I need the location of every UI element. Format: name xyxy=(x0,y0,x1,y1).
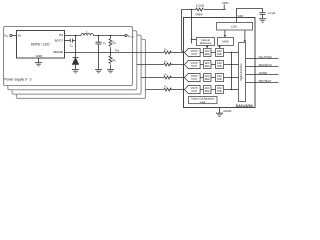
svg-text:IOUT: IOUT xyxy=(192,66,198,68)
svg-text:SENSE: SENSE xyxy=(53,50,63,54)
svg-text:REG: REG xyxy=(205,79,210,81)
svg-text:VREF: VREF xyxy=(195,13,203,17)
svg-text:VDD: VDD xyxy=(222,1,229,5)
svg-text:DAC: DAC xyxy=(217,62,222,65)
svg-text:BUF: BUF xyxy=(217,79,222,81)
svg-text:10 kΩ: 10 kΩ xyxy=(196,3,205,7)
svg-text:DAC: DAC xyxy=(205,62,210,65)
svg-text:IN: IN xyxy=(18,34,21,38)
svg-text:Digital Interface: Digital Interface xyxy=(240,63,243,81)
svg-text:GND: GND xyxy=(36,54,44,58)
svg-text:BUF: BUF xyxy=(217,91,222,93)
svg-text:DAC: DAC xyxy=(205,75,210,78)
svg-text:DAC: DAC xyxy=(205,87,210,90)
svg-text:REG: REG xyxy=(205,66,210,68)
svg-text:DAC: DAC xyxy=(217,75,222,78)
svg-text:IOUT: IOUT xyxy=(192,54,198,56)
svg-text:BOOT: BOOT xyxy=(55,39,64,43)
svg-text:NVM: NVM xyxy=(222,40,229,44)
svg-text:VOUT/: VOUT/ xyxy=(191,88,198,90)
svg-text:BUF: BUF xyxy=(217,66,222,68)
svg-text:SCL/SYNC: SCL/SYNC xyxy=(259,55,273,59)
svg-text:VOUT/: VOUT/ xyxy=(191,63,198,65)
svg-text:DACx3204: DACx3204 xyxy=(236,104,253,108)
svg-text:Logic: Logic xyxy=(200,101,207,104)
svg-text:AGND: AGND xyxy=(223,109,231,113)
svg-text:VOUT/: VOUT/ xyxy=(191,51,198,53)
svg-text:DAC: DAC xyxy=(205,50,210,53)
svg-text:REG: REG xyxy=(205,54,210,56)
svg-text:LDO: LDO xyxy=(231,25,238,29)
svg-text:PROTECT: PROTECT xyxy=(259,79,272,83)
svg-text:SDA/SCLK: SDA/SCLK xyxy=(259,63,273,67)
svg-text:PH: PH xyxy=(59,33,63,37)
svg-text:Reference: Reference xyxy=(200,42,212,45)
svg-text:VOUT/: VOUT/ xyxy=(191,76,198,78)
svg-text:SMPS / LDO: SMPS / LDO xyxy=(31,43,50,47)
svg-text:CAP: CAP xyxy=(238,14,244,18)
svg-text:IOUT: IOUT xyxy=(192,91,198,93)
svg-text:IOUT: IOUT xyxy=(192,79,198,81)
svg-text:A0/SDI: A0/SDI xyxy=(259,71,268,75)
svg-text:Power supply 0 - 3: Power supply 0 - 3 xyxy=(4,78,31,82)
svg-text:DAC: DAC xyxy=(217,50,222,53)
svg-text:REG: REG xyxy=(205,91,210,93)
svg-text:DAC: DAC xyxy=(217,87,222,90)
svg-text:BUF: BUF xyxy=(217,54,222,56)
svg-text:1.0 µF: 1.0 µF xyxy=(267,11,275,15)
